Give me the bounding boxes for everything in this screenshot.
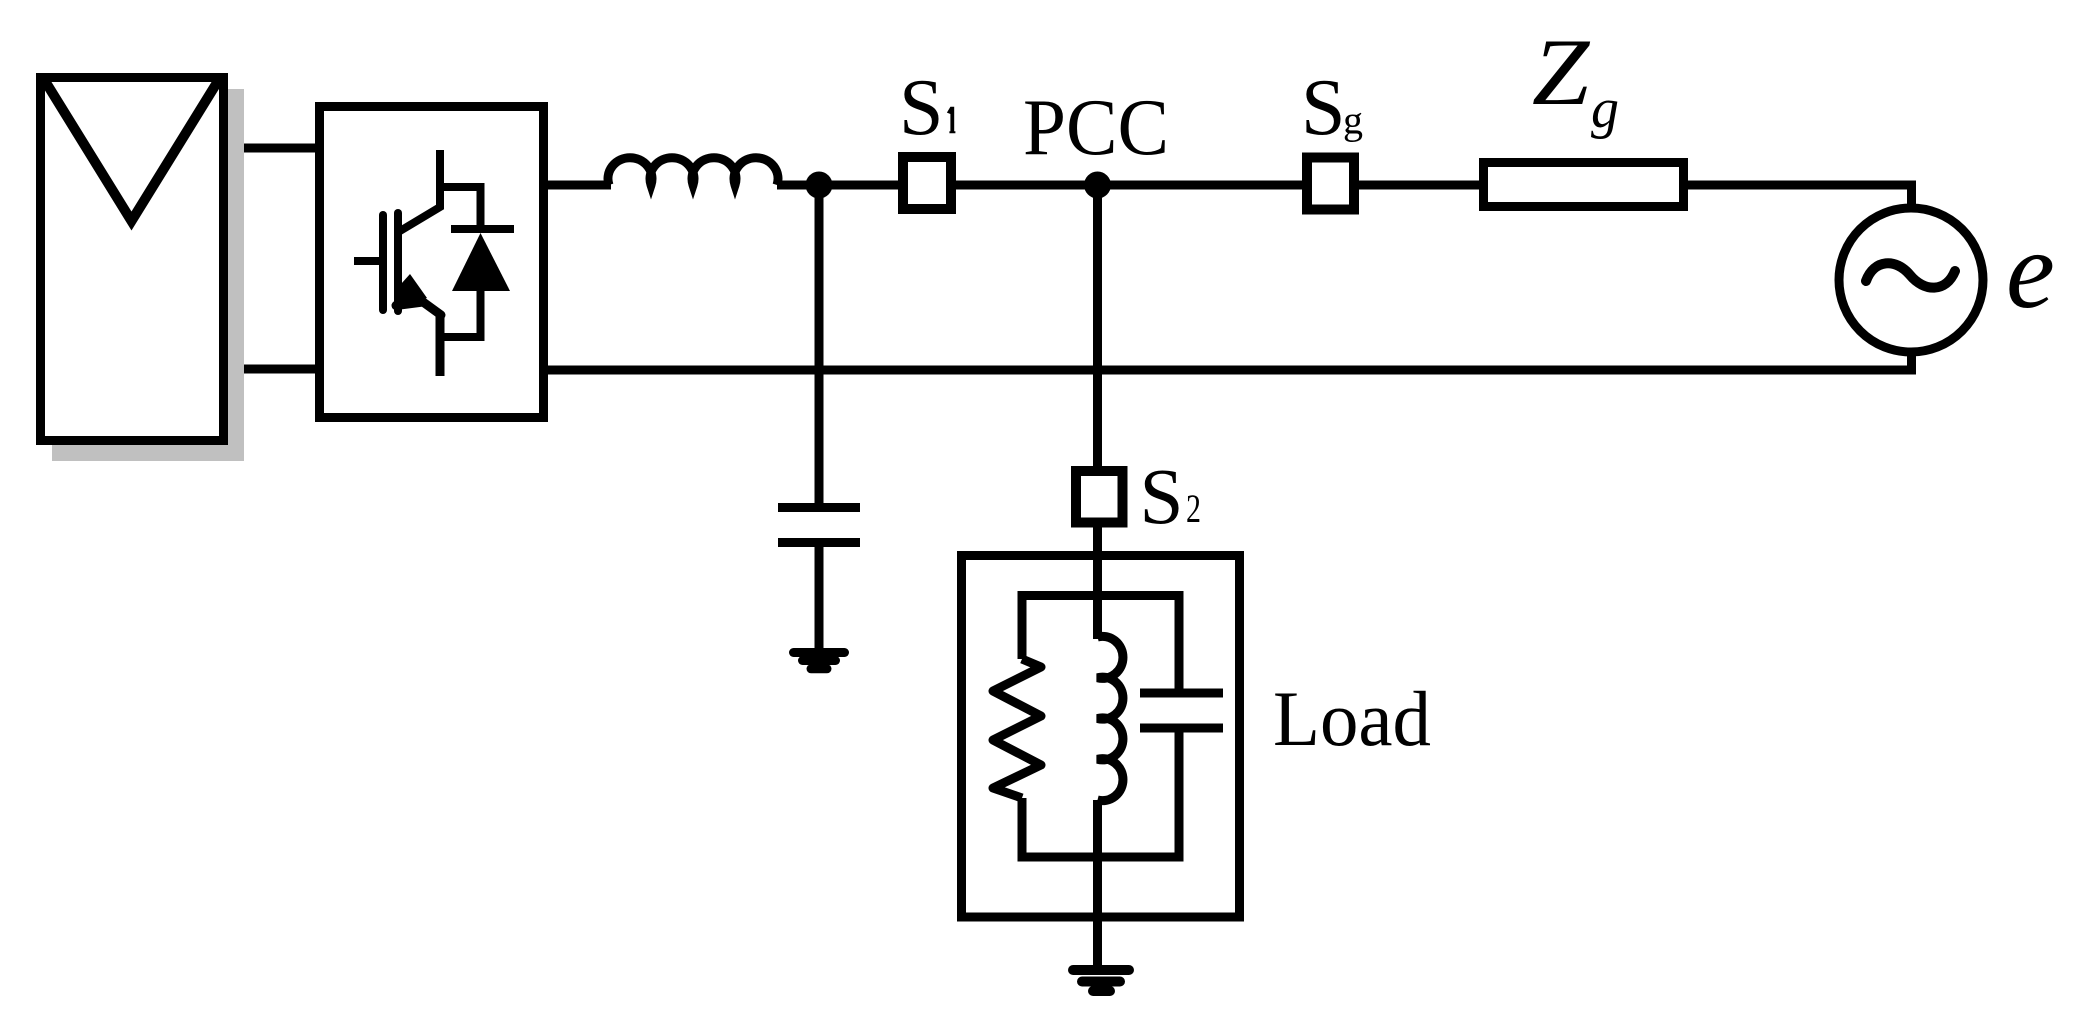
- grid impedance Zg box: [1484, 163, 1684, 207]
- load inductor L coil: [1098, 636, 1123, 800]
- load inner bottom rail: [1018, 853, 1184, 862]
- wire node A down to capacitor: [815, 185, 824, 505]
- IGBT emitter lead: [436, 313, 445, 376]
- diode anode lead: [440, 291, 481, 337]
- svg-text:PCC: PCC: [1023, 84, 1169, 172]
- node A junction dot: [806, 172, 833, 199]
- IGBT gate bar: [379, 215, 387, 310]
- node PCC junction dot: [1084, 172, 1111, 199]
- label Zg: [1532, 21, 1590, 125]
- svg-text:e: e: [2006, 209, 2055, 331]
- filter inductor L1: [608, 158, 778, 185]
- diode triangle: [452, 233, 510, 291]
- IGBT top branch to diode: [440, 187, 481, 225]
- svg-text:S: S: [1140, 454, 1184, 541]
- PV panel shadow: [52, 89, 244, 461]
- ac source e circle: [1839, 208, 1983, 352]
- load resistor R lead bottom: [1018, 798, 1027, 862]
- PV panel chevron: [45, 81, 218, 221]
- IGBT emitter arrow: [399, 274, 427, 307]
- wire capacitor to ground: [815, 545, 824, 652]
- IGBT gate lead: [354, 257, 379, 265]
- wire Sg to Zg: [1359, 181, 1479, 190]
- load capacitor C top plate: [1140, 689, 1223, 698]
- diode cathode bar: [451, 225, 514, 233]
- wire S2 into load: [1093, 525, 1102, 639]
- filter capacitor C1 top plate: [778, 503, 860, 512]
- svg-text:Z: Z: [1532, 21, 1590, 125]
- svg-text:Load: Load: [1273, 675, 1431, 762]
- load inner top rail: [1018, 591, 1184, 600]
- switch S1: [903, 157, 951, 209]
- bottom return wire: [548, 351, 1912, 370]
- svg-text:2: 2: [1186, 486, 1201, 531]
- load resistor R zigzag: [993, 659, 1041, 798]
- load resistor R lead top: [1018, 591, 1027, 659]
- ground (load): [1073, 970, 1129, 991]
- wire load to ground: [1093, 800, 1102, 966]
- wire inverter to inductor: [548, 181, 611, 190]
- svg-text:g: g: [1591, 78, 1619, 140]
- IGBT body bar: [394, 213, 402, 311]
- switch S2: [1076, 471, 1123, 523]
- svg-text:g: g: [1343, 98, 1363, 143]
- wire inductor to S1: [777, 181, 898, 190]
- load capacitor C lead top: [1175, 591, 1184, 690]
- filter capacitor C1 bottom plate: [778, 538, 860, 547]
- wire S1 to Sg: [956, 181, 1302, 190]
- svg-text:S: S: [1301, 64, 1346, 152]
- IGBT collector lead: [400, 150, 440, 231]
- ground (filter): [794, 653, 845, 669]
- PV panel PV1: [41, 78, 224, 441]
- wire PV to inverter bottom: [244, 365, 319, 374]
- wire PCC down to S2: [1093, 185, 1102, 468]
- IGBT emitter run: [396, 302, 441, 315]
- ac source sine: [1866, 263, 1955, 287]
- wire PV to inverter top: [244, 144, 319, 153]
- load capacitor C bottom plate: [1140, 724, 1223, 733]
- switch Sg: [1307, 158, 1354, 210]
- load capacitor C lead bottom: [1175, 731, 1184, 862]
- svg-text:S: S: [899, 64, 944, 152]
- wire Zg to source: [1688, 185, 1912, 207]
- inverter U1 box: [320, 107, 544, 418]
- load box: [962, 556, 1240, 918]
